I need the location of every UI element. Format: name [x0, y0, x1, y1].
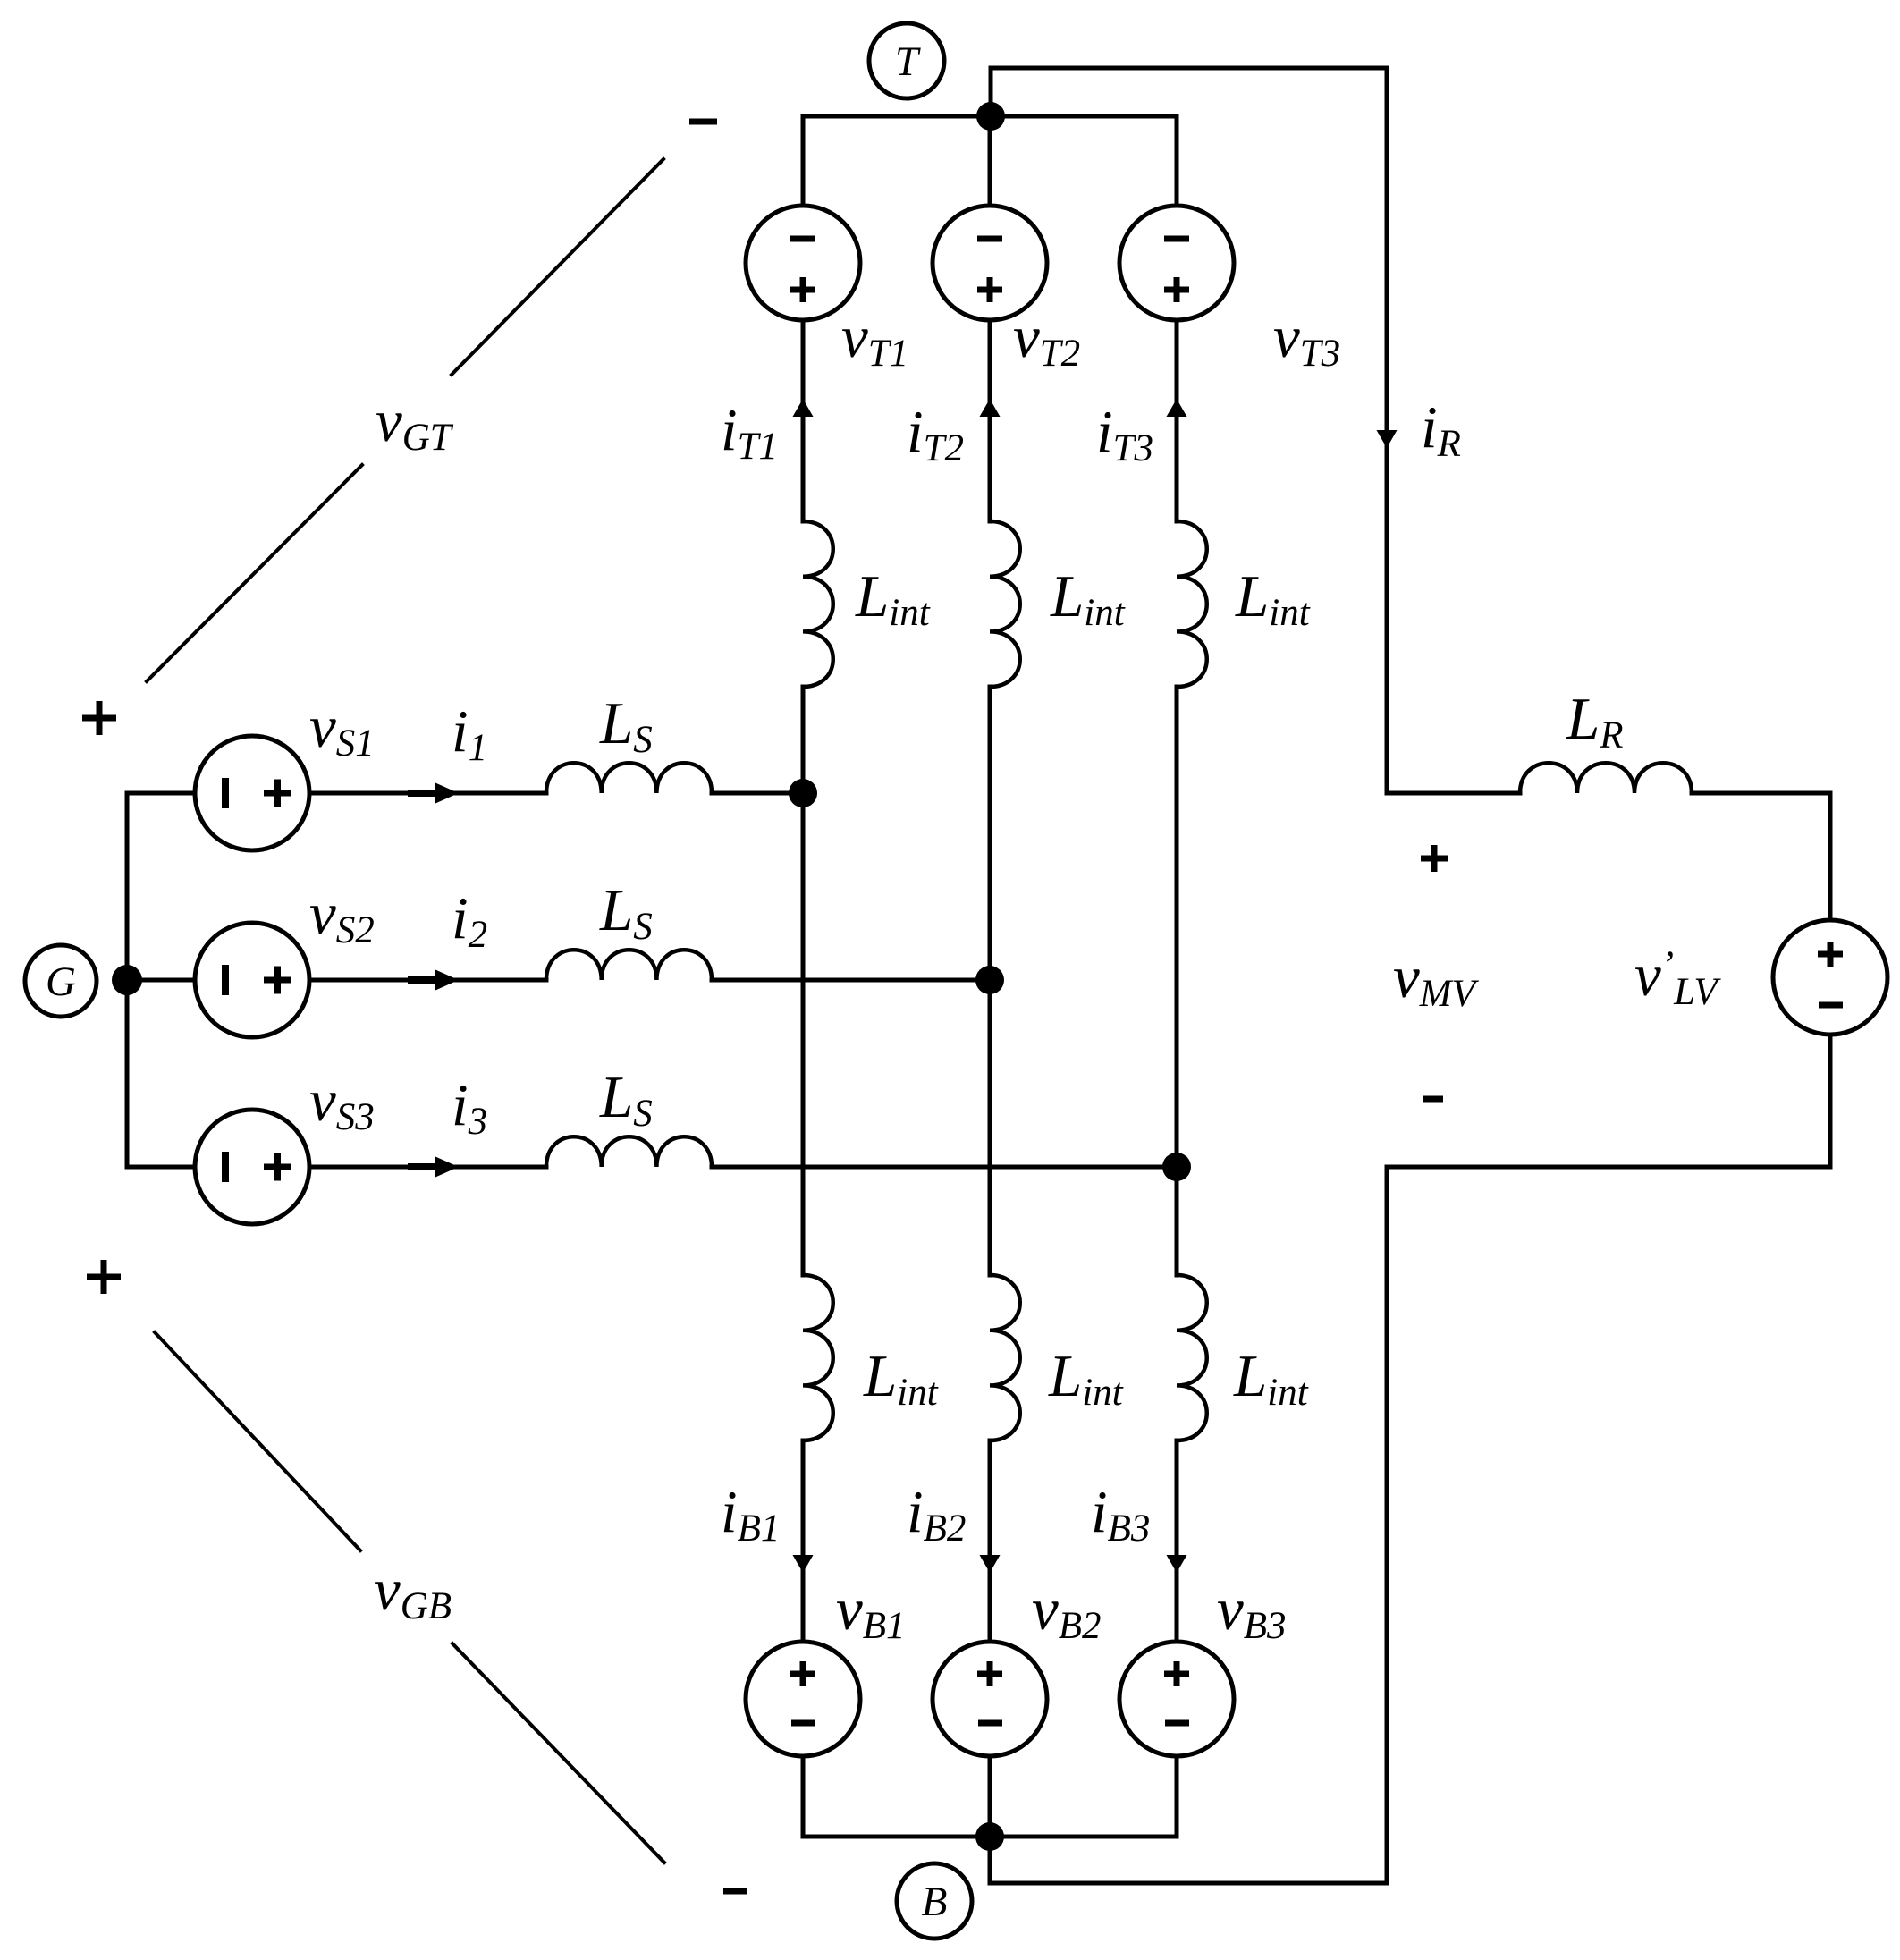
wire top bus T — [803, 114, 1177, 119]
wire vS2 to LS (i2 arrow) — [309, 978, 546, 983]
wire below v'LV — [1828, 1035, 1833, 1167]
vS2 minus bar — [222, 965, 229, 995]
wire G bus to vS2 — [127, 978, 195, 983]
svg-text:Lint: Lint — [1050, 563, 1126, 634]
inductor LS phase2 — [546, 950, 712, 980]
svg-text:iT1: iT1 — [721, 397, 778, 468]
v'LV plus sign — [1818, 942, 1843, 967]
vT2 plus sign — [977, 277, 1002, 302]
wire left bus G — [125, 793, 130, 1167]
inductor Lint bottom phase3 — [1177, 1275, 1207, 1440]
voltage source vS3 circle — [195, 1110, 309, 1224]
vT3 plus sign — [1164, 277, 1189, 302]
svg-text:vT2: vT2 — [1013, 304, 1080, 375]
svg-text:vMV: vMV — [1393, 944, 1480, 1015]
vB2 plus sign — [977, 1661, 1002, 1686]
vS1 plus sign — [264, 780, 291, 807]
svg-text:LS: LS — [599, 1064, 653, 1135]
wire LR row left segment — [1387, 791, 1520, 796]
v'LV minus sign — [1819, 1002, 1843, 1009]
wire vS1 to LS (i1 arrow) — [309, 791, 546, 796]
svg-text:vT1: vT1 — [841, 304, 908, 375]
node B circle — [897, 1863, 972, 1939]
voltage source vS1 circle — [195, 736, 309, 850]
voltage source vS2 circle — [195, 923, 309, 1037]
svg-text:vT3: vT3 — [1273, 304, 1340, 375]
svg-text:Lint: Lint — [855, 563, 931, 634]
vGB plus sign — [87, 1260, 121, 1294]
wire vT3 to Lint (iT3 arrow) — [1175, 320, 1179, 521]
wire top rail to right — [991, 66, 1387, 71]
vMV minus sign — [1423, 1096, 1443, 1102]
svg-text:G: G — [46, 959, 76, 1005]
svg-text:vB2: vB2 — [1032, 1576, 1102, 1647]
vB3 minus sign — [1165, 1720, 1189, 1727]
wire stub below vB1 — [801, 1756, 806, 1837]
wire phase2 top bus to vT2 — [988, 116, 992, 206]
vT1 plus sign — [790, 277, 815, 302]
inductor LR — [1520, 763, 1692, 793]
junction dot node B — [975, 1822, 1004, 1851]
vS2 plus sign — [264, 967, 291, 994]
junction dot node 3 — [1162, 1153, 1191, 1181]
wire bottom bus B — [803, 1835, 1177, 1839]
svg-text:vS2: vS2 — [309, 881, 375, 951]
svg-text:T: T — [895, 38, 921, 85]
voltage source vB2 circle — [933, 1642, 1047, 1756]
arrowhead i3 right — [408, 1157, 459, 1178]
inductor Lint bottom phase2 — [990, 1275, 1020, 1440]
wire vGB diagonal lower — [452, 1643, 664, 1863]
svg-text:i3: i3 — [452, 1072, 487, 1143]
inductor Lint top phase3 — [1177, 521, 1207, 687]
wire right drop to v'LV — [1828, 793, 1833, 920]
svg-text:iB2: iB2 — [907, 1479, 966, 1550]
voltage source vB3 circle — [1119, 1642, 1234, 1756]
arrowhead iT1 up — [793, 399, 814, 417]
wire phase3 middle vertical — [1175, 687, 1179, 1275]
svg-text:B: B — [922, 1879, 948, 1925]
inductor LS phase1 — [546, 763, 712, 793]
wire vGT diagonal upper — [452, 159, 663, 375]
svg-text:v’LV: v’LV — [1634, 942, 1721, 1013]
arrowhead iB1 down — [793, 1555, 814, 1573]
junction dot node 1 — [789, 779, 817, 807]
voltage source v'LV circle — [1773, 920, 1887, 1035]
node G circle — [25, 945, 97, 1017]
wire Lint to vB2 (iB2 arrow) — [988, 1440, 992, 1642]
arrowhead i2 right — [408, 970, 459, 991]
svg-text:iT3: iT3 — [1096, 399, 1153, 469]
wire stub below vB3 — [1175, 1756, 1179, 1837]
wire bottom return horizontal — [990, 1881, 1387, 1886]
wire phase2 middle vertical — [988, 687, 992, 1275]
svg-text:vGB: vGB — [374, 1557, 452, 1627]
wire B drop — [988, 1837, 992, 1883]
svg-text:i2: i2 — [452, 885, 487, 956]
arrowhead iB3 down — [1167, 1555, 1187, 1573]
wire riser to T rail — [989, 68, 993, 116]
svg-text:LS: LS — [599, 877, 653, 948]
vB2 minus sign — [978, 1720, 1002, 1727]
arrowhead iR down — [1377, 430, 1398, 448]
wire LR row right segment — [1692, 791, 1830, 796]
svg-text:Lint: Lint — [1233, 1343, 1309, 1414]
svg-text:vGT: vGT — [376, 388, 454, 459]
arrowhead iT2 up — [980, 399, 1001, 417]
wire phase1 top bus to vT1 — [801, 116, 806, 206]
inductor Lint bottom phase1 — [803, 1275, 833, 1440]
arrowhead i1 right — [408, 783, 459, 804]
wire right return vertical — [1385, 1167, 1389, 1883]
svg-text:Lint: Lint — [863, 1343, 939, 1414]
svg-text:iT2: iT2 — [907, 399, 964, 469]
wire vS3 to LS (i3 arrow) — [309, 1165, 546, 1170]
inductor Lint top phase2 — [990, 521, 1020, 687]
vGB minus sign — [723, 1888, 747, 1895]
voltage source vT1 circle — [746, 206, 860, 320]
wire Lint to vB1 (iB1 arrow) — [801, 1440, 806, 1642]
vGT plus sign — [82, 701, 116, 735]
wire vGB diagonal upper — [155, 1332, 360, 1550]
wire stub below vB2 — [988, 1756, 992, 1837]
voltage source vT3 circle — [1119, 206, 1234, 320]
svg-text:i1: i1 — [452, 698, 487, 769]
svg-text:LS: LS — [599, 690, 653, 761]
node T circle — [869, 23, 944, 98]
vS3 plus sign — [264, 1153, 291, 1181]
wire vT1 to Lint (iT1 arrow) — [801, 320, 806, 521]
vT2 minus sign — [977, 236, 1002, 242]
vT1 minus sign — [790, 236, 815, 242]
vMV plus sign — [1421, 845, 1448, 872]
wire phase1 middle vertical — [801, 687, 806, 1275]
svg-text:Lint: Lint — [1048, 1343, 1124, 1414]
inductor Lint top phase1 — [803, 521, 833, 687]
vS1 minus bar — [222, 778, 229, 808]
voltage source vB1 circle — [746, 1642, 860, 1756]
inductor LS phase3 — [546, 1136, 712, 1167]
wire G bus to vS1 — [127, 791, 195, 796]
wire LS1 to node — [712, 791, 803, 796]
svg-text:vS1: vS1 — [309, 694, 375, 765]
junction dot node T — [976, 102, 1005, 131]
wire right vertical iR branch — [1385, 68, 1389, 793]
wire LS3 to node — [712, 1165, 1177, 1170]
svg-text:LR: LR — [1566, 686, 1624, 756]
wire G bus to vS3 — [127, 1165, 195, 1170]
svg-text:iB3: iB3 — [1091, 1479, 1150, 1550]
arrowhead iB2 down — [980, 1555, 1001, 1573]
svg-text:vB3: vB3 — [1217, 1576, 1287, 1647]
svg-text:Lint: Lint — [1235, 563, 1311, 634]
svg-text:iB1: iB1 — [721, 1479, 780, 1550]
wire LS2 to node — [712, 978, 990, 983]
voltage source vT2 circle — [933, 206, 1047, 320]
vB1 plus sign — [790, 1661, 815, 1686]
wire vT2 to Lint (iT2 arrow) — [988, 320, 992, 521]
wire vGT diagonal lower — [147, 465, 362, 681]
wire Lint to vB3 (iB3 arrow) — [1175, 1440, 1179, 1642]
arrowhead iT3 up — [1167, 399, 1187, 417]
svg-text:iR: iR — [1421, 394, 1461, 465]
vT3 minus sign — [1164, 236, 1189, 242]
svg-text:vS3: vS3 — [309, 1068, 375, 1138]
junction dot node 2 — [975, 966, 1004, 994]
vB1 minus sign — [791, 1720, 815, 1727]
vS3 minus bar — [222, 1152, 229, 1182]
wire MV return bottom horizontal — [1387, 1165, 1830, 1170]
junction dot node G — [112, 965, 142, 995]
vGT minus sign — [689, 119, 717, 125]
vB3 plus sign — [1164, 1661, 1189, 1686]
wire phase3 top bus to vT3 — [1175, 116, 1179, 206]
svg-text:vB1: vB1 — [836, 1576, 906, 1647]
